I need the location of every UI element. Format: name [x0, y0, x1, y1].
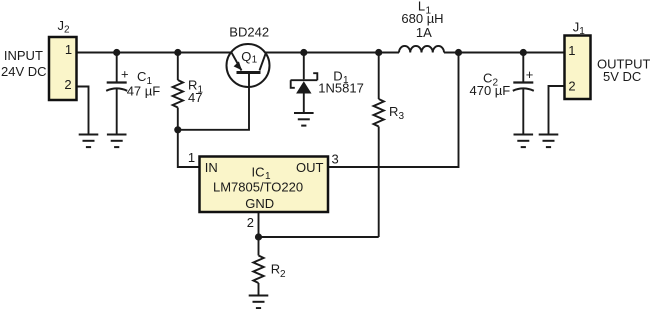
svg-text:Q: Q: [241, 49, 251, 64]
svg-text:1: 1: [579, 26, 585, 37]
svg-text:BD242: BD242: [229, 25, 269, 40]
svg-text:680 µH: 680 µH: [401, 11, 443, 26]
svg-text:5V DC: 5V DC: [603, 69, 641, 84]
svg-text:R: R: [389, 104, 398, 119]
svg-text:1A: 1A: [416, 25, 432, 40]
svg-text:2: 2: [64, 77, 71, 92]
svg-text:LM7805/TO220: LM7805/TO220: [213, 180, 303, 195]
svg-text:47 µF: 47 µF: [127, 84, 161, 99]
svg-text:47: 47: [188, 90, 202, 105]
svg-text:1: 1: [568, 43, 575, 58]
svg-text:GND: GND: [245, 196, 274, 211]
svg-text:1N5817: 1N5817: [318, 81, 364, 96]
svg-text:1: 1: [252, 55, 258, 66]
svg-text:2: 2: [64, 25, 70, 36]
svg-text:IN: IN: [205, 160, 218, 175]
svg-text:IC: IC: [252, 164, 265, 179]
svg-text:+: +: [121, 67, 129, 82]
svg-text:2: 2: [247, 215, 254, 230]
svg-text:3: 3: [399, 111, 405, 122]
svg-text:1: 1: [65, 42, 72, 57]
svg-text:C: C: [137, 69, 146, 84]
svg-text:INPUT: INPUT: [4, 48, 43, 63]
svg-text:1: 1: [188, 150, 195, 165]
svg-text:R: R: [271, 262, 280, 277]
svg-text:2: 2: [280, 269, 286, 280]
svg-text:24V DC: 24V DC: [1, 64, 47, 79]
svg-text:OUT: OUT: [296, 160, 324, 175]
svg-text:+: +: [526, 67, 534, 82]
svg-text:2: 2: [568, 78, 575, 93]
svg-text:3: 3: [331, 152, 338, 167]
svg-text:470 µF: 470 µF: [470, 83, 511, 98]
